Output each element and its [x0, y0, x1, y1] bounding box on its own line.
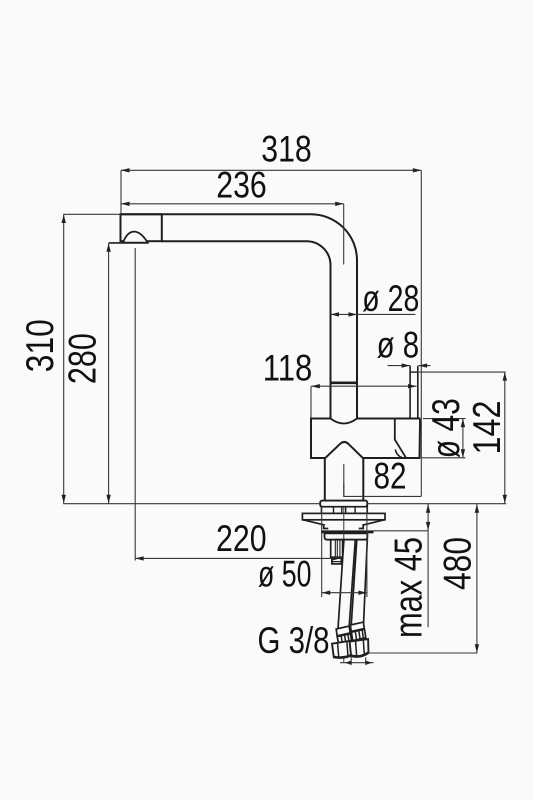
- extension line right x421: [420, 170, 422, 496]
- extension diam43 top: [423, 418, 466, 420]
- dim 236 line: [121, 203, 344, 205]
- spout outlet centerline / 220 extension: [134, 248, 136, 561]
- svg-text:ø 43: ø 43: [425, 398, 468, 458]
- 280 arrows: [106, 243, 110, 252]
- 220 arrows: [135, 556, 144, 560]
- dim 480 line: [476, 504, 478, 653]
- dim 82 box: [344, 483, 422, 496]
- dome centerline: [343, 464, 345, 496]
- flange skirt right: [363, 520, 384, 525]
- diam28 arrows: [331, 312, 340, 316]
- 118 arrows: [311, 384, 320, 388]
- arrowheads: [62, 168, 508, 665]
- right hose nut G3/8: [350, 639, 369, 656]
- 142 arrows: [503, 372, 507, 381]
- 236 arrows: [121, 202, 130, 206]
- diam50 arrows: [322, 591, 331, 595]
- downtube joint thick line: [331, 381, 358, 384]
- body lever seam: [395, 419, 406, 458]
- svg-text:280: 280: [62, 333, 105, 384]
- svg-text:318: 318: [261, 128, 312, 170]
- faucet centerline below deck: [343, 507, 345, 663]
- extension line left (318/236): [120, 170, 122, 213]
- max45 arrows: [426, 504, 430, 513]
- extension 118 left at body corner: [310, 386, 312, 417]
- diam8 arrows: [402, 363, 411, 367]
- faucet spout outlet box: [121, 214, 162, 241]
- left hose nut G3/8: [332, 640, 355, 658]
- body lever arc detail: [395, 450, 402, 458]
- left hose ribbed sleeve: [337, 634, 351, 644]
- svg-text:ø 50: ø 50: [258, 553, 312, 595]
- diam43 arrows: [461, 419, 465, 428]
- dim 142 line: [504, 372, 506, 503]
- body top edge: [311, 418, 420, 420]
- dim diam50 line: [322, 592, 367, 594]
- svg-text:ø 8: ø 8: [377, 323, 420, 365]
- dim 220 line: [135, 557, 340, 559]
- dim 280 line: [108, 243, 110, 503]
- flex hose left: [338, 540, 355, 629]
- deck line left segment: [63, 503, 320, 505]
- right hose ribbed sleeve: [351, 629, 365, 640]
- dim diam43 line: [462, 419, 464, 458]
- svg-text:max 45: max 45: [388, 537, 431, 638]
- deck line right segment: [367, 503, 506, 505]
- base flange plate: [302, 513, 385, 519]
- body left edge: [310, 418, 312, 459]
- left hose collar: [336, 626, 350, 636]
- stud lower tip: [332, 557, 341, 564]
- base bottom strip: [325, 533, 368, 539]
- 310 arrows: [62, 215, 66, 224]
- flange skirt left: [303, 520, 325, 525]
- body bottom edge: [311, 457, 420, 459]
- svg-text:236: 236: [216, 164, 267, 206]
- svg-text:ø 28: ø 28: [362, 277, 419, 319]
- 480 arrows: [475, 504, 479, 513]
- dim 318 line: [121, 169, 421, 171]
- dim diam8 line segments: [388, 365, 431, 367]
- extension diam43 bottom: [422, 457, 466, 459]
- spout inner contour (bottom line + inner bend + downtube left side): [162, 241, 331, 419]
- flex hose right: [351, 540, 367, 626]
- svg-text:480: 480: [437, 537, 480, 590]
- dim 118 line: [311, 385, 416, 387]
- G3/8 arrows: [345, 661, 352, 665]
- dim 310 line: [63, 215, 65, 504]
- max45 bottom reference line: [374, 530, 429, 532]
- aerator hump on outlet: [123, 232, 148, 243]
- mounting band with detail boxes: [321, 507, 367, 514]
- dim max45 line: [427, 504, 429, 627]
- G3/8 extension ticks: [351, 656, 366, 665]
- spout top extension to left: [63, 213, 120, 215]
- diam50 extension right: [366, 508, 368, 598]
- extension 142 top: [419, 371, 506, 373]
- right hose collar: [350, 622, 364, 631]
- locking nut thick bar: [321, 530, 374, 533]
- extension line 236 tube center: [343, 204, 345, 265]
- mixer body (white fill): [311, 419, 420, 459]
- handle pin top cap line: [410, 371, 418, 373]
- svg-text:310: 310: [19, 319, 62, 372]
- handle pin (diam 8 stub): [410, 366, 418, 419]
- shank side walls with hooks: [324, 524, 364, 529]
- threaded stud: [331, 540, 343, 558]
- 480 bottom reference line: [368, 652, 477, 654]
- spout outer contour (top line + outer bend + downtube right side): [121, 214, 358, 419]
- tube-to-body saddle arc: [331, 419, 358, 424]
- svg-text:142: 142: [466, 401, 509, 455]
- svg-text:118: 118: [263, 346, 313, 388]
- diam50 extension left: [321, 508, 323, 598]
- svg-text:82: 82: [374, 455, 407, 497]
- base dome column: [325, 442, 364, 501]
- G3/8 dim line: [340, 662, 374, 664]
- aerator base line: [109, 242, 149, 244]
- dim diam28 line: [331, 313, 416, 315]
- body right edge: [419, 419, 422, 459]
- escutcheon cap: [320, 501, 367, 507]
- svg-text:G 3/8: G 3/8: [258, 619, 330, 661]
- 318 arrows: [121, 168, 130, 172]
